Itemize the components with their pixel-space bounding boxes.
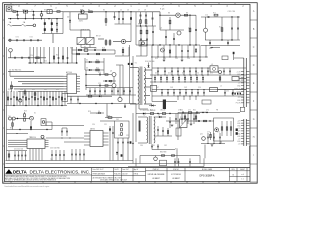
svg-text:UL/MB/57: UL/MB/57 (172, 178, 180, 180)
svg-text:C82: C82 (164, 145, 167, 147)
bend box (62, 94, 68, 102)
cap C95 (174, 158, 176, 166)
svg-text:C10: C10 (188, 27, 191, 29)
cap (177, 68, 179, 75)
wire (67, 103, 136, 105)
svg-text:R51: R51 (32, 89, 35, 91)
wire N line (8, 18, 63, 20)
resistor R15 (11, 81, 13, 92)
bulk cap C3 (51, 19, 53, 34)
border zone numbers (18, 6, 255, 157)
resistor R8 (184, 14, 187, 16)
in-line row y121 (196, 120, 214, 122)
cap C31 (232, 91, 234, 93)
transistor Q2 (176, 13, 180, 17)
svg-text:1N4148: 1N4148 (160, 110, 166, 112)
svg-text:R2: R2 (88, 9, 90, 11)
node (202, 112, 203, 113)
svg-text:AZ7500: AZ7500 (66, 71, 72, 74)
svg-text:D3: D3 (86, 67, 88, 69)
cap (191, 90, 193, 97)
resistor R14 (36, 57, 39, 59)
cap C26 (70, 96, 72, 104)
stub comps mid (157, 126, 159, 136)
resistor R27 (105, 117, 122, 119)
bulk cap C4 (51, 28, 53, 31)
svg-text:C80: C80 (140, 145, 143, 147)
svg-text:D6: D6 (98, 111, 100, 113)
wire (7, 129, 53, 131)
top stub component (233, 52, 235, 54)
resistor R2 (89, 11, 93, 13)
cap (157, 68, 159, 75)
svg-text:R18: R18 (70, 48, 73, 50)
resistor R30 (121, 133, 123, 136)
cap (13, 96, 15, 98)
zener ZD1 (69, 20, 71, 22)
node (157, 113, 158, 114)
node row wire (136, 44, 200, 46)
diode (196, 75, 198, 82)
cap (127, 138, 129, 161)
svg-text:U2: U2 (30, 137, 32, 139)
svg-text:R41: R41 (56, 55, 59, 57)
cap (37, 98, 39, 100)
wire (7, 91, 9, 106)
svg-text:R50: R50 (8, 89, 11, 91)
title table lines (92, 168, 250, 182)
svg-text:C5: C5 (120, 9, 122, 11)
cap C64 (182, 112, 184, 114)
cap (59, 150, 61, 161)
diode (178, 75, 180, 82)
upper drive wires (72, 49, 115, 51)
svg-text:K (2): K (2) (160, 8, 165, 10)
svg-text:CY1: CY1 (16, 37, 19, 39)
svg-text:D10: D10 (155, 58, 158, 60)
svg-text:D11: D11 (155, 73, 158, 75)
resistor R11 (146, 30, 148, 34)
resistor R64 (195, 113, 197, 123)
cap CY5 (37, 39, 39, 41)
PWM IC U1 (67, 74, 77, 94)
wire (140, 26, 142, 45)
photocoupler PC2 (86, 38, 94, 45)
svg-text:+5V: +5V (238, 77, 241, 79)
wire (113, 77, 115, 84)
wire (12, 24, 21, 26)
svg-text:+3.3V: +3.3V (237, 71, 241, 73)
wire (201, 143, 225, 145)
connector P2 labels (237, 120, 241, 145)
wire (7, 133, 29, 135)
svg-text:R19: R19 (102, 48, 105, 50)
bus node row (6, 105, 68, 107)
diode D8 (143, 113, 145, 115)
cap (64, 98, 66, 100)
cap C65 (196, 112, 198, 114)
wire (34, 91, 36, 106)
box small TB (160, 160, 167, 166)
transistor Q1 (121, 39, 125, 43)
svg-text:D9: D9 (158, 115, 160, 117)
lamp NE1 (81, 10, 84, 13)
cap (185, 90, 187, 97)
svg-text:Q2: Q2 (160, 27, 162, 29)
transistor Q5 (9, 49, 13, 53)
cap C6b (114, 12, 116, 20)
title block top rule (4, 167, 250, 169)
resistor R47 (195, 49, 196, 52)
node (140, 44, 141, 45)
standby IC U3 (90, 131, 103, 147)
resistor R42 (96, 53, 99, 55)
wire (180, 14, 196, 16)
cap (203, 90, 205, 97)
wire (190, 113, 192, 125)
inductor L6 (222, 56, 228, 60)
node (105, 11, 106, 12)
cap C13 (146, 38, 148, 40)
cap (129, 88, 131, 95)
inductor L5 (210, 88, 218, 92)
cap C36 (169, 117, 171, 128)
wire (9, 71, 11, 76)
wire (155, 135, 172, 137)
cap (187, 114, 189, 125)
wire (218, 67, 247, 69)
svg-text:C72: C72 (206, 110, 209, 112)
svg-text:R61: R61 (193, 110, 196, 112)
transistor Q13 (219, 71, 222, 74)
resistor R32 (162, 113, 165, 115)
gnd stubs under node row (163, 57, 165, 60)
svg-text:R23: R23 (24, 111, 27, 113)
cap CY2 (16, 39, 18, 41)
transistor Q7 (112, 84, 116, 88)
wire (22, 91, 24, 106)
cap CX1 (17, 12, 19, 19)
wire (58, 91, 60, 106)
cap (25, 151, 27, 161)
standby transformer T2 primary (147, 117, 148, 143)
svg-text:Downloaded from www.Manualslib: Downloaded from www.Manualslib.com manua… (5, 186, 50, 188)
svg-text:R45: R45 (150, 110, 153, 112)
resistor R63 (184, 113, 186, 123)
svg-text:TP1: TP1 (50, 159, 53, 161)
diode (190, 75, 192, 82)
resistor (43, 97, 44, 100)
resistor R43 (122, 47, 124, 56)
svg-text:+12V: +12V (237, 94, 241, 96)
svg-text:C90: C90 (92, 124, 95, 126)
node (152, 44, 153, 45)
cap C38 (130, 141, 132, 143)
bold marks (128, 63, 130, 65)
cap (51, 150, 53, 161)
U1 pins right (77, 75, 81, 77)
cap C32 (30, 121, 32, 130)
svg-text:+5VSB: +5VSB (236, 91, 241, 93)
svg-text:+12V: +12V (237, 120, 241, 122)
cap C40 (58, 57, 60, 59)
border zone ticks (3, 3, 258, 184)
wire (130, 67, 138, 69)
U2 pins bottom (29, 149, 31, 161)
svg-text:D16 C66 R66: D16 C66 R66 (145, 61, 155, 63)
cap C97 (189, 158, 191, 166)
wire (46, 121, 52, 123)
secondary +3.3 rails (152, 89, 247, 91)
inductor L7 (202, 100, 211, 104)
svg-text:R40: R40 (44, 60, 47, 62)
wire (165, 30, 167, 45)
svg-text:R45: R45 (96, 67, 99, 69)
svg-text:R26: R26 (88, 111, 91, 113)
svg-text:TH1: TH1 (8, 116, 11, 118)
svg-text:D15: D15 (210, 73, 213, 75)
node row (136, 25, 156, 27)
svg-text:F1: F1 (12, 9, 14, 11)
wire (42, 33, 63, 35)
svg-text:6/7 P303/34: 6/7 P303/34 (171, 174, 180, 176)
diode (154, 75, 156, 82)
svg-text:C47: C47 (156, 87, 159, 89)
wire (15, 118, 29, 120)
svg-text:C51 C52 C53: C51 C52 C53 (14, 149, 23, 151)
svg-text:R9 C9: R9 C9 (96, 36, 101, 38)
connector body blocks (236, 128, 238, 131)
node row y57 (151, 56, 208, 58)
resistor R37 (226, 121, 228, 136)
cap CX2 (33, 12, 35, 19)
svg-text:D6: D6 (96, 113, 98, 115)
wire (31, 91, 33, 106)
resistor R28 (121, 124, 123, 127)
svg-text:+5V: +5V (238, 139, 241, 141)
cap CY1 (9, 39, 11, 41)
svg-text:C71: C71 (188, 110, 191, 112)
transistor Q15 (41, 135, 44, 138)
svg-text:SCH NO.: SCH NO. (173, 169, 180, 171)
svg-text:C50: C50 (198, 87, 201, 89)
junction nodes on N line (10, 18, 11, 19)
cap (71, 149, 73, 161)
svg-text:L3: L3 (211, 64, 213, 66)
nodes (13, 105, 14, 106)
svg-text:NE1: NE1 (80, 9, 83, 11)
cap (189, 68, 191, 75)
cap (181, 114, 183, 125)
transformer secondary taps (144, 69, 152, 71)
transistor Q3 (177, 31, 181, 35)
wire (135, 12, 137, 45)
cap (83, 149, 85, 161)
cap (173, 90, 175, 97)
-12V rail (136, 113, 200, 115)
cap (94, 88, 96, 95)
svg-text:K1: K1 (34, 112, 36, 114)
resistor (61, 97, 62, 100)
svg-text:SHEET: SHEET (240, 169, 245, 171)
wire (210, 47, 220, 49)
cap (55, 98, 57, 100)
transformer T1 core (139, 67, 141, 106)
wire (25, 91, 27, 106)
cap C30 (224, 91, 226, 93)
cap (201, 68, 203, 75)
svg-text:FB: FB (216, 110, 218, 112)
cap (171, 68, 173, 75)
cap (10, 98, 12, 100)
svg-text:C60: C60 (20, 89, 23, 91)
wire (189, 15, 191, 45)
resistor R12 (214, 14, 218, 16)
svg-text:C74: C74 (217, 131, 220, 133)
wire (132, 113, 134, 164)
cap C7b electrolytic (130, 12, 132, 24)
svg-text:REV: REV (232, 169, 235, 171)
resistor R4 (105, 39, 107, 46)
svg-text:C45: C45 (175, 58, 178, 60)
cap (167, 90, 169, 97)
cap C25 (124, 104, 126, 109)
connector P1 body (243, 58, 245, 107)
svg-text:DPS-300BP A: DPS-300BP A (200, 174, 215, 177)
resistor R48 (219, 77, 221, 80)
resistor R38 (230, 121, 232, 136)
U3 pins right (103, 132, 109, 134)
svg-text:R3: R3 (103, 9, 105, 11)
resistor R41 (62, 56, 63, 59)
choke L1 (23, 10, 27, 13)
aux bridge box (139, 41, 147, 47)
cap (197, 90, 199, 97)
Delta logo triangle (5, 169, 12, 174)
wire (189, 96, 191, 100)
wire (19, 91, 21, 106)
svg-text:Q11: Q11 (200, 133, 203, 135)
svg-text:C31 C30: C31 C30 (228, 11, 235, 13)
svg-text:24DVR GB-230ESNE: 24DVR GB-230ESNE (148, 174, 166, 176)
wire (69, 12, 71, 30)
cap C41 (67, 57, 69, 59)
svg-text:C44: C44 (163, 58, 166, 60)
cap C18 (227, 40, 229, 46)
resistor R7 (145, 20, 147, 24)
svg-text:DELTA ELECTRONICS, INC.: DELTA ELECTRONICS, INC. (30, 170, 91, 175)
cap C19 (14, 57, 16, 59)
cap (122, 138, 124, 161)
svg-text:CX1: CX1 (22, 9, 25, 11)
varistor RV1 (40, 14, 43, 17)
feedback box U5 (214, 118, 234, 141)
svg-text:Chk W: Chk W (114, 169, 119, 171)
cap C35 (121, 154, 123, 156)
svg-text:L2: L2 (55, 8, 57, 10)
cap (207, 68, 209, 75)
node (195, 44, 196, 45)
svg-text:PC3: PC3 (180, 117, 183, 119)
svg-text:L5: L5 (220, 85, 222, 87)
transistor Q6 (112, 73, 116, 77)
svg-text:C14: C14 (205, 14, 208, 16)
resistor R40 (53, 56, 54, 59)
resistor R84 (161, 155, 164, 156)
svg-text:D14: D14 (196, 73, 199, 75)
resistor (34, 97, 35, 100)
cap (14, 151, 16, 161)
cap (55, 150, 57, 161)
cap (193, 114, 195, 125)
rectifier pack D5 (151, 85, 157, 91)
resistor R45 (96, 69, 99, 71)
cap C17 (209, 40, 211, 46)
svg-text:+5V: +5V (238, 128, 241, 130)
stub comps mid 2 (162, 127, 164, 136)
wire (135, 114, 137, 143)
cap C6 (122, 12, 124, 24)
cap C29 (229, 70, 231, 72)
wire (128, 47, 130, 56)
wire (86, 87, 133, 89)
wire (204, 145, 206, 159)
aux connector box (240, 107, 244, 111)
cap C22 (94, 49, 96, 51)
cap (164, 68, 166, 75)
resistor R24 (12, 120, 14, 130)
rectifier D17 (151, 105, 153, 107)
wire (177, 96, 179, 100)
cap C14 (207, 16, 209, 18)
cap C11 (152, 31, 154, 33)
svg-text:C22: C22 (94, 48, 97, 50)
standby second row (151, 144, 153, 150)
heatsink bar (163, 100, 166, 110)
node (189, 44, 190, 45)
cap (63, 150, 65, 161)
svg-text:C46: C46 (187, 58, 190, 60)
secondary +5 rails (150, 81, 247, 83)
cap (21, 151, 23, 161)
svg-text:R6: R6 (138, 24, 140, 26)
cap C80 (151, 145, 153, 147)
diode (184, 75, 186, 82)
cap (104, 88, 106, 95)
svg-text:R44: R44 (96, 59, 99, 61)
fb rail (178, 112, 240, 114)
cap C81 (157, 145, 159, 147)
wire (52, 34, 54, 44)
wire (37, 91, 39, 106)
resistor R46 (169, 50, 170, 53)
cap (195, 68, 197, 75)
transistor Q10 (215, 128, 219, 132)
cap CY4 (30, 39, 32, 41)
svg-text:C81: C81 (152, 145, 155, 147)
cap C23 (87, 53, 89, 55)
transistor Q12 (161, 48, 165, 52)
resistor R17 (34, 92, 36, 97)
resistor R19 (102, 49, 105, 51)
drop wires right (49, 47, 51, 63)
svg-text:+5V: +5V (238, 144, 241, 146)
transformer T1 secondary winding (144, 68, 145, 105)
cap C12 (140, 38, 142, 40)
svg-text:R52: R52 (56, 89, 59, 91)
cap C10 (189, 28, 191, 32)
ground (190, 123, 193, 125)
